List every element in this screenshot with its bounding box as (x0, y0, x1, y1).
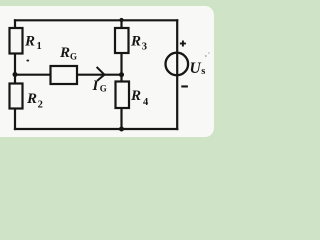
svg-text:R: R (130, 88, 141, 104)
wire left upper (14, 19, 16, 29)
plus sign of source (180, 41, 186, 47)
svg-text:4: 4 (143, 97, 149, 108)
resistor RG (51, 66, 78, 84)
svg-text:R: R (59, 45, 70, 61)
faint specks right of US label (205, 55, 207, 57)
junction dot top of middle branch (119, 18, 123, 22)
minus sign of source (181, 85, 188, 87)
svg-text:R: R (26, 91, 37, 107)
wire middle mid (120, 53, 122, 83)
white content panel (0, 6, 214, 137)
wire middle branch left (15, 74, 51, 76)
svg-text:s: s (201, 66, 205, 77)
wire left lower (14, 108, 16, 130)
svg-text:2: 2 (38, 100, 43, 111)
resistor R1 (10, 28, 23, 54)
wire middle upper (120, 19, 122, 29)
svg-text:G: G (100, 84, 107, 94)
wire middle lower (120, 108, 122, 131)
voltage source U_S circle (166, 53, 189, 76)
junction dot bottom of middle branch (119, 127, 124, 132)
svg-text:G: G (70, 52, 77, 62)
arrow head of current I_G (97, 67, 105, 81)
resistor R4 (116, 82, 130, 109)
wire left middle (14, 53, 16, 85)
svg-text:I: I (92, 78, 100, 94)
wire middle branch right (77, 74, 122, 76)
ink speck below R1 label (26, 60, 29, 62)
svg-text:1: 1 (37, 41, 42, 52)
wire right vertical (176, 19, 178, 130)
wire top (14, 19, 178, 21)
svg-text:U: U (190, 60, 202, 77)
resistor R2 (10, 84, 23, 109)
node A junction dot on left wire (13, 72, 18, 77)
node B junction dot mid branch (119, 72, 124, 77)
svg-text:R: R (24, 34, 35, 50)
svg-text:R: R (130, 34, 141, 50)
resistor R3 (115, 28, 129, 53)
wire bottom (14, 128, 178, 130)
svg-text:3: 3 (142, 42, 147, 53)
